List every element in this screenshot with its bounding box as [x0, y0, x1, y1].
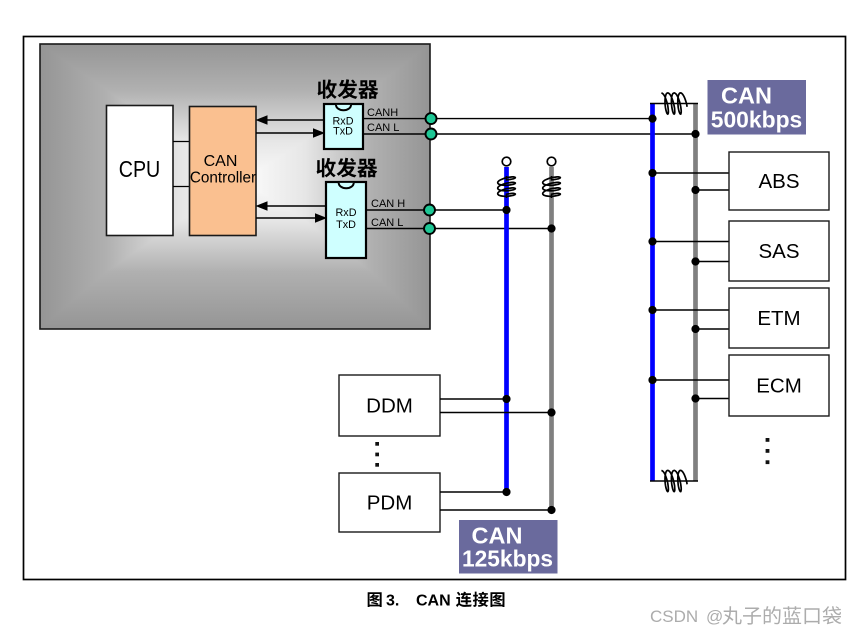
node box DDM [339, 375, 440, 436]
wire DDM CANL stub [440, 412, 552, 414]
wire CAN H U2 to 125k bus [366, 209, 507, 211]
svg-text:DDM: DDM [366, 395, 413, 418]
node CAN H bulkhead (green) [424, 205, 435, 216]
wire ETM CANL stub [696, 328, 730, 330]
node box SAS [729, 221, 829, 281]
junction U1 CANH on 500k bus [648, 115, 656, 123]
svg-text:CAN H: CAN H [371, 198, 405, 210]
wire SAS CANH stub [653, 241, 730, 243]
125k bus CANL terminal circle [547, 157, 556, 166]
svg-text:500kbps: 500kbps [711, 107, 803, 133]
125k bus CANH termination coil [498, 176, 516, 198]
label CAN 500kbps [708, 80, 807, 135]
500k bus bottom termination coil [661, 470, 687, 491]
wire PDM CANL stub [440, 509, 552, 511]
node box ECM [729, 355, 829, 416]
svg-text:PDM: PDM [367, 492, 413, 515]
junction ETM CANH [648, 306, 656, 314]
node CANH bulkhead (green) [426, 113, 437, 124]
500k bus CANH line (blue) [650, 103, 655, 481]
wire RxD arrow to controller (lower) [256, 201, 327, 211]
wire ECM CANH stub [653, 379, 730, 381]
wire CAN L U2 to 125k bus [366, 228, 552, 230]
CPU box [107, 106, 174, 236]
svg-text:3.: 3. [386, 593, 399, 610]
svg-text:CAN: CAN [204, 153, 238, 170]
node box ABS [729, 152, 829, 210]
125k bus CANL line (gray) [549, 167, 554, 510]
node CANL bulkhead (green) [426, 129, 437, 140]
junction PDM CANH [502, 488, 510, 496]
125k bus CANH line (blue) [504, 167, 509, 492]
junction ABS CANL [691, 186, 699, 194]
transceiver label 2 收发器 [316, 158, 377, 178]
125k bus CANL termination coil [543, 176, 561, 198]
svg-text:125kbps: 125kbps [462, 546, 553, 572]
transceiver label 1 收发器 [317, 79, 378, 99]
junction SAS CANH [648, 237, 656, 245]
svg-text:ETM: ETM [757, 307, 800, 330]
CAN Controller box [190, 107, 257, 236]
junction ETM CANL [691, 325, 699, 333]
wire CPU-controller upper [173, 141, 190, 143]
wire RxD arrow to controller (upper) [256, 115, 325, 125]
junction PDM CANL [547, 506, 555, 514]
500k bus bottom termination wire [650, 480, 698, 482]
ellipsis below ECM [766, 438, 770, 464]
node CAN L bulkhead (green) [424, 223, 435, 234]
svg-text:ECM: ECM [756, 375, 802, 398]
500k bus CANL line (gray) [693, 103, 698, 481]
node box PDM [339, 473, 440, 532]
svg-text:CAN L: CAN L [371, 217, 403, 229]
wire ETM CANH stub [653, 309, 730, 311]
junction SAS CANL [691, 257, 699, 265]
svg-text:@: @ [706, 607, 723, 626]
svg-text:CAN: CAN [416, 593, 451, 610]
svg-text:RxD: RxD [336, 207, 357, 219]
wire SAS CANL stub [696, 261, 730, 263]
label CAN 125kbps [459, 520, 558, 574]
wire TxD arrow to transceiver U1 [256, 128, 325, 138]
svg-text:CPU: CPU [119, 156, 161, 182]
junction U2 CANH [502, 206, 510, 214]
wire DDM CANH stub [440, 398, 507, 400]
500k bus top termination coil [661, 93, 687, 114]
wire PDM CANH stub [440, 491, 507, 493]
ECU module block (gray gradient) [40, 44, 430, 329]
wire CPU-controller lower [173, 186, 190, 188]
junction ABS CANH [648, 169, 656, 177]
svg-text:SAS: SAS [758, 240, 799, 263]
wire TxD arrow to transceiver U2 [256, 213, 327, 223]
watermark CSDN [650, 606, 841, 626]
junction U1 CANL on 500k bus [691, 130, 699, 138]
junction ECM CANL [691, 394, 699, 402]
junction U2 CANL [547, 224, 555, 232]
wire CANH U1 to 500k bus [363, 118, 653, 120]
svg-text:Controller: Controller [190, 170, 256, 187]
svg-text:ABS: ABS [758, 170, 799, 193]
svg-text:CANH: CANH [367, 107, 398, 119]
node box ETM [729, 288, 829, 348]
svg-text:CSDN: CSDN [650, 607, 698, 626]
svg-text:CAN L: CAN L [367, 122, 399, 134]
ellipsis between DDM and PDM [375, 442, 379, 467]
caption 图3 CAN 连接图 [368, 592, 505, 610]
wire ABS CANH stub [653, 172, 730, 174]
wire CANL U1 to 500k bus [363, 133, 696, 135]
transceiver U2 [326, 182, 366, 258]
svg-text:CAN: CAN [721, 83, 772, 109]
svg-text:TxD: TxD [336, 219, 356, 231]
junction DDM CANL [547, 408, 555, 416]
junction ECM CANH [648, 376, 656, 384]
125k bus CANH terminal circle [502, 157, 511, 166]
junction DDM CANH [502, 395, 510, 403]
transceiver U1 [324, 104, 363, 149]
500k bus top termination wire [650, 103, 698, 105]
wire ABS CANL stub [696, 189, 730, 191]
svg-text:TxD: TxD [333, 126, 353, 138]
wire ECM CANL stub [696, 398, 730, 400]
